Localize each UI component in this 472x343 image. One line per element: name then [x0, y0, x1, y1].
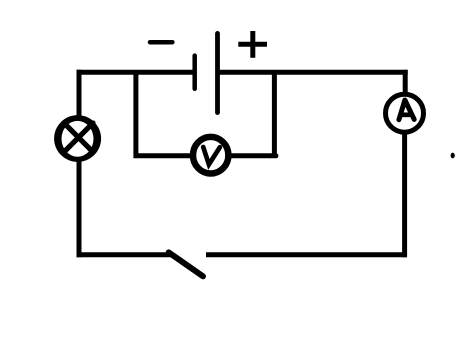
wire right vertical lower (ammeter to bottom wire): [402, 133, 407, 257]
lamp L1 (circle with X): [54, 115, 101, 162]
wire bottom-left segment (to switch): [77, 252, 171, 257]
wire bottom-right segment (switch to right vertical): [206, 252, 407, 257]
wire voltmeter-loop right vertical: [272, 72, 277, 158]
ammeter A1: [386, 94, 424, 132]
wire top-left segment (left vertical to battery negative plate): [77, 70, 195, 75]
battery B1 negative plate (short): [192, 56, 197, 89]
wire left vertical lower (lamp to bottom wire): [77, 161, 82, 257]
wire left vertical upper (top wire to lamp): [77, 70, 82, 117]
voltmeter V1: [193, 137, 228, 174]
wire voltmeter-loop bottom right segment: [230, 153, 276, 158]
wire top-right segment (battery positive plate to right vertical): [218, 70, 408, 75]
stray dot (period) right of circuit: [451, 153, 455, 159]
battery minus label: [150, 40, 172, 45]
battery plus label: [238, 31, 267, 58]
wire voltmeter-loop left vertical: [133, 72, 138, 158]
battery B1 positive plate (long): [215, 33, 220, 112]
wire right vertical upper (top wire to ammeter): [403, 70, 408, 94]
switch S1 blade: [169, 252, 203, 276]
wire voltmeter-loop bottom left segment: [134, 153, 193, 158]
